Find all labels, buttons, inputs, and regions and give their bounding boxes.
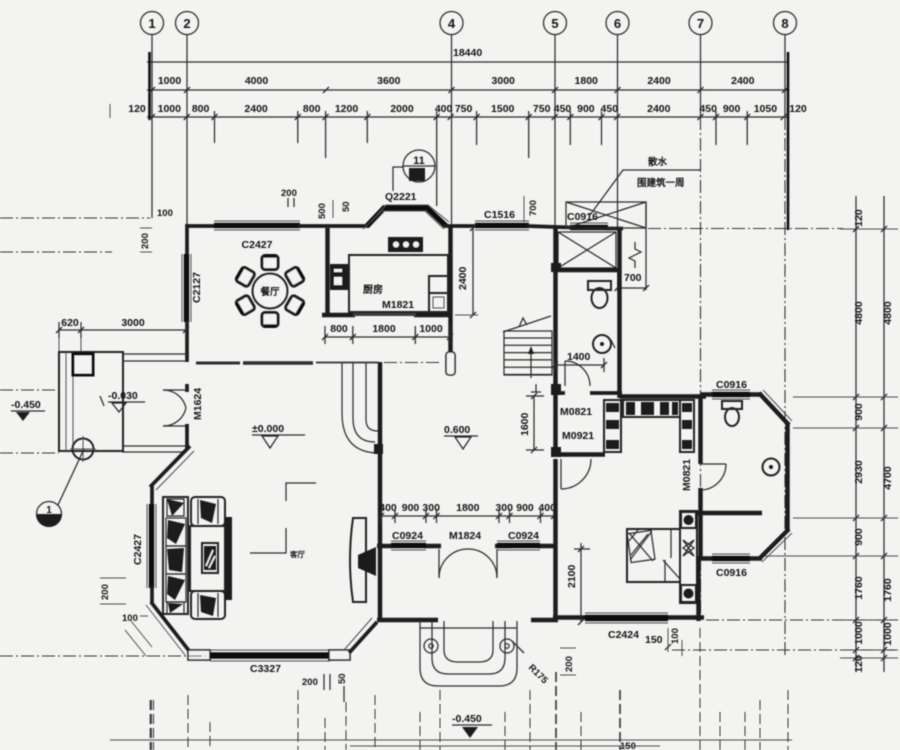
- north wall east end: [606, 227, 623, 231]
- svg-text:700: 700: [624, 272, 642, 284]
- right dimension line outer: [883, 196, 885, 672]
- bay window detail bubble: [393, 150, 435, 191]
- kitchen depth dim 2400: [455, 225, 478, 318]
- wall stub end at axis4: [446, 352, 455, 375]
- wash basin upper bathroom: [593, 335, 615, 353]
- svg-text:±0.000: ±0.000: [252, 423, 284, 435]
- exterior steps U outer: [420, 621, 517, 686]
- toilet octagon bath: [722, 401, 742, 426]
- tv set: [358, 547, 376, 576]
- small dim 200 above north wall: [281, 188, 297, 207]
- north wall left segment: [186, 224, 216, 228]
- svg-text:C0916: C0916: [716, 567, 747, 579]
- svg-text:4: 4: [448, 16, 456, 31]
- corridor bottom wall: [553, 452, 605, 456]
- svg-text:1000: 1000: [853, 621, 865, 645]
- porch column bottom round: [70, 436, 96, 462]
- svg-text:-0.030: -0.030: [108, 390, 138, 402]
- svg-text:400: 400: [379, 502, 397, 514]
- svg-text:900: 900: [723, 103, 741, 115]
- svg-text:800: 800: [192, 103, 210, 115]
- svg-text:200: 200: [302, 677, 318, 688]
- bottom dimension baseline: [110, 739, 792, 741]
- door M1624 double leaf: [163, 390, 186, 426]
- svg-text:1800: 1800: [575, 75, 599, 87]
- curved screen wall arcs: [342, 363, 379, 453]
- svg-text:200: 200: [140, 233, 151, 249]
- svg-text:50: 50: [337, 673, 348, 684]
- svg-text:3600: 3600: [377, 75, 401, 87]
- centerline right of terrace: [648, 228, 843, 230]
- svg-text:50: 50: [341, 201, 352, 212]
- svg-text:900: 900: [577, 103, 595, 115]
- svg-text:4700: 4700: [882, 466, 894, 490]
- dim 700 rotated near C1516: [524, 196, 539, 222]
- bedroom east wall lower: [696, 556, 700, 621]
- svg-text:5: 5: [551, 16, 558, 31]
- svg-text:4800: 4800: [853, 301, 865, 325]
- dim 1400 bathroom: [552, 351, 607, 372]
- window C2424: [585, 613, 668, 623]
- axis 6 bubble: [606, 12, 629, 35]
- bedroom bathroom shared wall: [698, 397, 702, 464]
- svg-text:1800: 1800: [372, 323, 396, 335]
- svg-text:2000: 2000: [390, 103, 414, 115]
- svg-text:7: 7: [697, 16, 704, 31]
- window C3327 living south: [210, 650, 330, 661]
- kitchen stove: [388, 237, 423, 252]
- svg-text:100: 100: [122, 613, 138, 624]
- svg-text:800: 800: [303, 103, 321, 115]
- right dimension ticks: [840, 226, 898, 661]
- foyer south dim row: [378, 502, 557, 523]
- terrace lower crossed deck: [558, 232, 616, 268]
- small dim 200 100 lower left: [100, 578, 148, 624]
- step handrail post left: [424, 639, 438, 653]
- axis 2 grid line: [186, 35, 188, 227]
- west wall below door: [185, 424, 189, 449]
- top dimension extension lines: [215, 111, 748, 206]
- svg-text:3000: 3000: [492, 75, 516, 87]
- svg-text:2400: 2400: [647, 75, 671, 87]
- svg-text:1: 1: [148, 16, 155, 31]
- axis 1 grid line: [151, 35, 153, 219]
- svg-text:120: 120: [789, 103, 807, 115]
- terrace east edge line: [645, 202, 647, 290]
- svg-text:450: 450: [601, 103, 619, 115]
- kitchen counter: [349, 255, 448, 312]
- svg-text:400: 400: [435, 103, 453, 115]
- dim 200 50 study left: [302, 673, 348, 702]
- kitchen dim row 800 1800 1000: [322, 323, 453, 344]
- svg-text:700: 700: [528, 200, 539, 216]
- closet top band: [623, 400, 680, 417]
- octagon inner divider wall: [696, 511, 762, 515]
- svg-text:450: 450: [699, 103, 717, 115]
- hall east wall axis5: [553, 226, 557, 390]
- svg-text:散水: 散水: [648, 156, 668, 168]
- svg-text:0.600: 0.600: [444, 424, 470, 436]
- svg-text:C2127: C2127: [191, 272, 203, 303]
- toilet upper bathroom: [588, 281, 611, 308]
- wall corner block: [551, 384, 561, 395]
- svg-text:1000: 1000: [158, 75, 182, 87]
- section bubble 1: [0, 449, 84, 527]
- svg-text:150: 150: [620, 741, 636, 750]
- svg-text:C2427: C2427: [242, 239, 273, 251]
- octagon bath north wall: [700, 392, 762, 396]
- axis 6 grid line: [617, 35, 619, 230]
- level marker 0.600: [444, 424, 478, 449]
- svg-text:200: 200: [100, 584, 111, 600]
- living chamfer southeast: [344, 618, 377, 653]
- west wall door section: [185, 384, 189, 392]
- svg-text:围建筑一周: 围建筑一周: [637, 177, 685, 189]
- svg-text:4800: 4800: [882, 301, 894, 325]
- north wall between axis5 and terrace: [527, 226, 572, 228]
- living south wall stub left: [188, 650, 210, 660]
- exterior steps top edge: [420, 627, 517, 629]
- dim 1600 vertical: [519, 384, 544, 453]
- octagon south wall: [700, 556, 762, 560]
- svg-text:C3327: C3327: [250, 663, 281, 675]
- living south wall stub right: [329, 650, 350, 660]
- svg-text:800: 800: [330, 323, 348, 335]
- svg-text:300: 300: [422, 502, 440, 514]
- svg-text:120: 120: [128, 103, 146, 115]
- top dimension row 2 ticks: [149, 114, 787, 120]
- octagon east wall: [785, 423, 789, 531]
- porch outline: [59, 352, 123, 451]
- svg-text:-0.450: -0.450: [11, 399, 41, 411]
- window C2127 west: [182, 254, 191, 322]
- svg-text:餐厅: 餐厅: [259, 286, 280, 298]
- sofa console strip: [224, 517, 232, 600]
- step handrail post right: [500, 639, 514, 653]
- axis 5 bubble: [544, 12, 567, 35]
- svg-text:1200: 1200: [335, 103, 359, 115]
- svg-text:2400: 2400: [647, 103, 671, 115]
- kitchen east wall on axis 4: [448, 226, 452, 352]
- study door arc: [561, 459, 591, 489]
- window C0916 terrace: [570, 223, 608, 232]
- west small dim 200 rotated: [0, 228, 152, 252]
- wash basin octagon bath: [763, 459, 780, 476]
- west extension dim 100: [0, 208, 173, 219]
- window C2427 living west: [147, 504, 156, 588]
- svg-text:Q2221: Q2221: [385, 191, 417, 203]
- right extension dashdot lower: [672, 620, 898, 650]
- closet left band: [604, 400, 621, 452]
- svg-text:200: 200: [564, 656, 575, 672]
- wall corner block nw bath: [551, 263, 561, 272]
- svg-text:M0821: M0821: [681, 459, 693, 491]
- window C0924 west: [391, 541, 426, 550]
- svg-text:1500: 1500: [491, 103, 515, 115]
- bottom extension lines: [151, 628, 788, 750]
- bathroom upper east wall: [617, 229, 621, 398]
- terrace upper crossed deck: [566, 202, 646, 228]
- svg-text:C0924: C0924: [508, 530, 539, 542]
- window C1516: [475, 221, 529, 230]
- kitchen sink cabinet: [429, 276, 448, 312]
- svg-text:C0916: C0916: [716, 379, 747, 391]
- tv cabinet: [350, 518, 366, 602]
- svg-text:2400: 2400: [244, 103, 268, 115]
- svg-text:-0.450: -0.450: [452, 713, 482, 725]
- svg-text:1600: 1600: [519, 412, 531, 436]
- study east wall: [553, 459, 557, 621]
- stairs: [503, 316, 552, 378]
- porch to wall link bottom: [122, 446, 186, 452]
- axis 2 bubble: [176, 12, 199, 35]
- foyer west wall: [378, 362, 382, 621]
- right extension line mid: [765, 428, 898, 556]
- study north wall: [377, 544, 557, 548]
- svg-text:11: 11: [413, 155, 425, 167]
- door M1824 double leaf: [439, 549, 497, 578]
- north wall right of bay: [444, 224, 478, 228]
- octagon chamfer northeast: [759, 390, 792, 425]
- bathroom door arc: [565, 361, 590, 386]
- exterior paving diagonals: [125, 621, 152, 656]
- terrace dim 700: [615, 268, 650, 292]
- porch column top: [73, 354, 93, 375]
- svg-text:2: 2: [183, 16, 190, 31]
- svg-text:900: 900: [853, 403, 865, 421]
- top dimension line 1: [147, 61, 789, 63]
- sanshui leader note: [590, 156, 700, 215]
- axis 8 grid line: [784, 35, 786, 118]
- svg-text:1050: 1050: [754, 103, 778, 115]
- svg-text:C2424: C2424: [608, 629, 639, 641]
- bedroom bath wall below door: [698, 488, 702, 560]
- right dimension outer values: [882, 301, 894, 646]
- svg-text:200: 200: [281, 188, 297, 199]
- window C2424 label: [608, 628, 682, 656]
- wall corner block foyer: [374, 444, 383, 454]
- level marker -0.450 bottom: [452, 713, 492, 738]
- svg-text:3000: 3000: [121, 317, 145, 329]
- west wall below window: [185, 320, 189, 362]
- small rotated dims 100 50: [317, 200, 352, 219]
- top dimension row 2 values: [128, 103, 807, 115]
- svg-text:450: 450: [554, 103, 572, 115]
- closet right band: [680, 400, 694, 452]
- svg-text:1000: 1000: [882, 622, 894, 646]
- living bay west wall: [150, 484, 154, 506]
- radius callout R175: [512, 641, 550, 687]
- axis 1 bubble: [141, 12, 164, 35]
- svg-text:150: 150: [645, 634, 663, 646]
- corridor south-of-bath wall: [553, 391, 622, 395]
- dining table: [253, 274, 288, 309]
- furniture callout brackets: [250, 483, 316, 559]
- bedside dresser band: [680, 511, 697, 603]
- svg-text:750: 750: [533, 103, 551, 115]
- bay window Q2221: [363, 205, 449, 229]
- svg-text:M1821: M1821: [382, 299, 414, 311]
- bathroom upper north wall: [553, 268, 620, 272]
- svg-text:M1824: M1824: [449, 530, 481, 542]
- corridor east wall: [553, 393, 557, 455]
- right dimension inner values: [853, 209, 865, 673]
- svg-text:120: 120: [853, 209, 865, 227]
- sofa bottom single: [191, 591, 225, 619]
- axis 8 bubble: [774, 12, 797, 35]
- kitchen refrigerator: [330, 264, 348, 290]
- dining living divider wall: [196, 361, 378, 365]
- window C2427 dining north: [214, 221, 300, 230]
- axis 5 grid line: [554, 35, 556, 227]
- svg-text:500: 500: [317, 203, 328, 219]
- svg-text:M0921: M0921: [562, 430, 594, 442]
- svg-text:900: 900: [853, 528, 865, 546]
- top dimension row 1 values: [158, 75, 755, 87]
- dim 200 step: [560, 648, 576, 675]
- axis 4 bubble: [440, 12, 463, 35]
- west wall upper: [185, 224, 189, 257]
- svg-text:厨房: 厨房: [363, 283, 383, 296]
- sofa top single: [191, 497, 225, 526]
- living bay chamfer bottom: [146, 602, 190, 655]
- sofa left column: [163, 497, 188, 614]
- window C0924 east: [497, 541, 540, 550]
- porch to wall link top: [122, 354, 187, 361]
- axis 4 grid line: [451, 35, 453, 227]
- svg-text:1400: 1400: [567, 351, 591, 363]
- nightstand lamp upper: [681, 512, 696, 528]
- divider centerline dashes: [384, 362, 442, 364]
- coffee table: [190, 526, 225, 591]
- left dashdot line y656: [0, 655, 206, 657]
- top dimension line 2: [147, 89, 789, 91]
- svg-text:100: 100: [157, 208, 173, 219]
- break symbol on terrace edge: [629, 242, 641, 268]
- left 120 tick: [109, 104, 111, 118]
- study south wall: [377, 618, 558, 622]
- octagon window C0916 north: [712, 390, 750, 399]
- svg-text:1760: 1760: [853, 576, 865, 600]
- dining chairs: [235, 256, 305, 327]
- right extension line upper: [793, 396, 898, 398]
- axis 7 grid line: [700, 35, 702, 118]
- svg-text:1760: 1760: [882, 578, 894, 602]
- north wall segment to bay: [298, 224, 369, 228]
- svg-text:1800: 1800: [456, 502, 480, 514]
- kitchen south wall: [322, 312, 452, 317]
- living bay west wall lower: [150, 586, 154, 604]
- svg-text:C0924: C0924: [392, 530, 423, 542]
- exterior steps U inner: [444, 621, 493, 662]
- kitchen west wall: [325, 228, 329, 315]
- svg-text:1000: 1000: [158, 103, 182, 115]
- top dimension line 3: [147, 116, 789, 118]
- octagon window C0916 south: [712, 554, 750, 563]
- svg-text:750: 750: [455, 103, 473, 115]
- porch dim 620 3000: [56, 317, 189, 338]
- corridor corner block: [551, 447, 561, 457]
- dim 2100 bedroom: [566, 543, 590, 625]
- axis 7 bubble: [689, 12, 712, 35]
- svg-text:18440: 18440: [453, 47, 482, 59]
- exterior steps U middle: [432, 621, 505, 674]
- svg-text:C0916: C0916: [567, 211, 598, 223]
- svg-text:100: 100: [670, 628, 681, 644]
- svg-text:900: 900: [402, 502, 420, 514]
- svg-text:C2427: C2427: [132, 534, 144, 565]
- svg-text:300: 300: [495, 502, 513, 514]
- svg-text:M1624: M1624: [192, 388, 204, 420]
- svg-text:4000: 4000: [245, 75, 269, 87]
- octagon chamfer southeast: [759, 529, 792, 562]
- svg-text:8: 8: [781, 16, 788, 31]
- svg-text:客厅: 客厅: [289, 549, 305, 559]
- svg-text:2100: 2100: [566, 564, 578, 588]
- porch dim extension lines: [59, 338, 81, 354]
- svg-text:C1516: C1516: [484, 209, 515, 221]
- top dimension row 1 ticks: [149, 87, 788, 93]
- svg-text:900: 900: [516, 502, 534, 514]
- nightstand lamp lower: [681, 585, 696, 602]
- bedroom north wall: [620, 394, 706, 398]
- level marker 0.000: [252, 423, 305, 448]
- bedroom south wall: [553, 615, 704, 619]
- svg-text:6: 6: [614, 16, 621, 31]
- svg-text:2400: 2400: [457, 266, 469, 290]
- bottom cut dimension marks: [350, 741, 660, 750]
- svg-text:2930: 2930: [853, 460, 865, 484]
- right edge end tick: [787, 52, 790, 230]
- left edge start tick: [148, 52, 151, 120]
- living bay chamfer top: [150, 446, 194, 490]
- svg-text:620: 620: [61, 317, 79, 329]
- level marker -0.450 left: [0, 390, 59, 421]
- svg-text:M0821: M0821: [560, 406, 592, 418]
- svg-text:2400: 2400: [731, 75, 755, 87]
- door M0821 bedroom leaf: [700, 464, 726, 490]
- bed: [627, 529, 680, 582]
- dresser middle marks: [683, 540, 694, 556]
- svg-text:1000: 1000: [419, 323, 443, 335]
- svg-text:120: 120: [853, 655, 865, 673]
- right dimension line inner: [855, 196, 857, 672]
- level marker -0.030 porch: [100, 390, 145, 412]
